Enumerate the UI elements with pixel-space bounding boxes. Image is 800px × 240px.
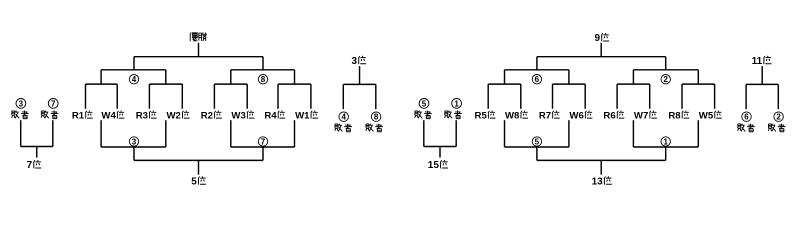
- svg-text:W4: W4: [101, 111, 116, 122]
- label 敗者 (loser of 4): [335, 124, 352, 132]
- wire R match4 stem: [697, 70, 699, 84]
- label 7位: [27, 160, 42, 171]
- node circled 1 loser (P15): [452, 99, 462, 109]
- wire P3 bar: [343, 83, 376, 85]
- svg-text:4: 4: [132, 75, 137, 84]
- node circled 5 loser (P15): [419, 99, 429, 109]
- svg-text:R2: R2: [201, 111, 213, 122]
- label 13位: [592, 176, 612, 187]
- wire R loser4 drop: [697, 120, 699, 147]
- wire L match2 bar: [149, 83, 182, 85]
- svg-text:8: 8: [261, 75, 266, 84]
- svg-text:7: 7: [27, 160, 33, 171]
- wire R match1 stem: [504, 70, 506, 84]
- wire L player4 drop: [181, 84, 183, 109]
- wire R loser2 drop: [568, 120, 570, 147]
- wire L match2 stem: [165, 70, 167, 84]
- label W8位: [505, 111, 528, 122]
- wire P15 bar: [424, 146, 456, 148]
- wire R consA stem: [536, 147, 538, 160]
- wire L player7 drop: [277, 84, 279, 109]
- wire L champion stem: [198, 43, 200, 57]
- svg-text:R6: R6: [603, 111, 615, 122]
- wire L placing stem: [198, 160, 200, 174]
- svg-text:3: 3: [19, 99, 24, 108]
- label 敗者 (loser of 3): [12, 111, 29, 119]
- wire P15 right drop: [455, 120, 457, 146]
- wire R semiB bar: [633, 69, 698, 71]
- wire P3 stem: [359, 66, 361, 84]
- wire L consA stem: [133, 147, 135, 160]
- wire R semiA stem: [536, 57, 538, 70]
- wire P7 stem: [36, 147, 38, 158]
- svg-text:2: 2: [663, 75, 668, 84]
- label 敗者 (loser of 1): [445, 111, 462, 119]
- label R2位: [201, 111, 222, 122]
- node circled 2 loser (P11): [774, 112, 784, 122]
- wire R semiA bar: [505, 69, 569, 71]
- svg-text:5: 5: [422, 99, 427, 108]
- label 5位: [191, 176, 206, 187]
- label W7位: [634, 111, 657, 122]
- node circled 7 loser (P7): [48, 99, 58, 109]
- wire P11 left drop: [745, 84, 747, 109]
- label R8位: [668, 111, 689, 122]
- node circled 6 (R semifinal A): [532, 75, 541, 85]
- node circled 5 (R consolation A): [532, 137, 541, 147]
- wire L player6 drop: [246, 84, 248, 109]
- svg-text:3: 3: [351, 56, 357, 67]
- node circled 2 (R semifinal B): [661, 75, 670, 85]
- wire L consB stem: [262, 147, 264, 160]
- wire R player1 drop: [487, 84, 489, 109]
- svg-text:R5: R5: [475, 111, 488, 122]
- wire L consolationB bar: [231, 146, 295, 148]
- wire L match4 stem: [294, 70, 296, 84]
- wire R consolationB bar: [633, 146, 698, 148]
- svg-text:W5: W5: [699, 111, 714, 122]
- wire L player2 drop: [116, 84, 118, 109]
- wire R consolationA bar: [505, 146, 569, 148]
- wire R final bar: [537, 56, 666, 58]
- label 敗者 (loser of 8): [366, 124, 383, 132]
- svg-text:1: 1: [663, 137, 668, 146]
- wire L match4 bar: [278, 83, 311, 85]
- wire L player1 drop: [85, 84, 87, 109]
- node circled 3 (L consolation A): [129, 137, 138, 147]
- svg-text:8: 8: [374, 113, 379, 122]
- node circled 8 loser (P3): [371, 112, 381, 122]
- label 15位: [428, 160, 448, 171]
- label W2位: [167, 111, 190, 122]
- wire R consB stem: [665, 147, 667, 160]
- wire R player5 drop: [616, 84, 618, 109]
- wire R player4 drop: [584, 84, 586, 109]
- label R3位: [136, 111, 157, 122]
- wire R match2 bar: [553, 83, 586, 85]
- node circled 1 (R consolation B): [661, 137, 670, 147]
- wire L semiB stem: [262, 57, 264, 70]
- label 敗者 (loser of 5): [415, 111, 432, 119]
- wire R match4 bar: [682, 83, 715, 85]
- wire R loser3 drop: [632, 120, 634, 147]
- svg-text:R8: R8: [668, 111, 681, 122]
- svg-text:2: 2: [776, 113, 781, 122]
- wire L loser2 drop: [165, 120, 167, 147]
- svg-text:11: 11: [752, 56, 763, 67]
- svg-text:4: 4: [341, 113, 346, 122]
- wire P11 right drop: [777, 84, 779, 109]
- label 9位: [594, 33, 609, 44]
- label 敗者 (loser of 2): [768, 124, 785, 132]
- node circled 8 (L semifinal B): [258, 75, 267, 85]
- wire P7 bar: [21, 146, 53, 148]
- svg-text:15: 15: [428, 160, 440, 171]
- label R6位: [603, 111, 624, 122]
- svg-text:6: 6: [744, 113, 749, 122]
- wire L final bar: [134, 56, 263, 58]
- svg-text:R3: R3: [136, 111, 148, 122]
- wire P15 left drop: [423, 120, 425, 146]
- wire L match1 stem: [100, 70, 102, 84]
- label R7位: [539, 111, 560, 122]
- node circled 7 (L consolation B): [258, 137, 267, 147]
- wire L semiB bar: [231, 69, 295, 71]
- node circled 3 loser (P7): [16, 99, 26, 109]
- wire R placing bar: [537, 159, 666, 161]
- wire R match1 bar: [488, 83, 521, 85]
- svg-text:W6: W6: [569, 111, 583, 122]
- wire L consolationA bar: [101, 146, 166, 148]
- wire L semiA stem: [133, 57, 135, 70]
- svg-text:3: 3: [132, 137, 137, 146]
- svg-text:W1: W1: [295, 111, 310, 122]
- wire P3 left drop: [342, 84, 344, 109]
- wire R placing stem: [600, 160, 602, 174]
- wire P3 right drop: [375, 84, 377, 109]
- wire L player3 drop: [148, 84, 150, 109]
- wire R match2 stem: [568, 70, 570, 84]
- wire P7 left drop: [20, 120, 22, 146]
- wire P7 right drop: [52, 120, 54, 146]
- label 11位: [752, 56, 772, 67]
- wire L loser3 drop: [230, 120, 232, 147]
- svg-text:W8: W8: [505, 111, 520, 122]
- wire P15 stem: [439, 147, 441, 158]
- svg-text:R1: R1: [72, 111, 85, 122]
- label W5位: [699, 111, 722, 122]
- wire R match3 stem: [632, 70, 634, 84]
- wire R champion stem: [600, 43, 602, 57]
- svg-text:13: 13: [592, 176, 604, 187]
- svg-text:5: 5: [535, 137, 540, 146]
- label W3位: [231, 111, 254, 122]
- wire R match3 bar: [617, 83, 650, 85]
- svg-text:9: 9: [594, 33, 600, 44]
- wire L loser1 drop: [100, 120, 102, 147]
- label W6位: [569, 111, 592, 122]
- label W1位: [295, 111, 318, 122]
- wire P11 bar: [746, 83, 778, 85]
- wire R player2 drop: [520, 84, 522, 109]
- wire R loser1 drop: [504, 120, 506, 147]
- label R4位: [264, 111, 285, 122]
- wire L match3 bar: [214, 83, 247, 85]
- label 3位: [351, 56, 366, 67]
- label 敗者 (loser of 7): [41, 111, 58, 119]
- label R5位: [475, 111, 496, 122]
- svg-text:W2: W2: [167, 111, 181, 122]
- svg-text:W3: W3: [231, 111, 245, 122]
- svg-text:W7: W7: [634, 111, 648, 122]
- wire L player5 drop: [213, 84, 215, 109]
- wire P11 stem: [761, 66, 763, 84]
- svg-text:7: 7: [261, 137, 266, 146]
- label 敗者 (loser of 6): [738, 124, 755, 132]
- svg-text:7: 7: [51, 99, 56, 108]
- wire L player8 drop: [310, 84, 312, 109]
- wire R player3 drop: [552, 84, 554, 109]
- label 優勝: [190, 32, 207, 41]
- wire R semiB stem: [665, 57, 667, 70]
- wire R player8 drop: [714, 84, 716, 109]
- label R1位: [72, 111, 93, 122]
- svg-text:6: 6: [535, 75, 540, 84]
- node circled 6 loser (P11): [742, 112, 752, 122]
- svg-text:R7: R7: [539, 111, 551, 122]
- wire L match1 bar: [86, 83, 118, 85]
- svg-text:R4: R4: [264, 111, 277, 122]
- svg-text:1: 1: [454, 99, 459, 108]
- label W4位: [101, 111, 124, 122]
- wire L semiA bar: [101, 69, 166, 71]
- svg-text:5: 5: [191, 176, 197, 187]
- node circled 4 loser (P3): [339, 112, 349, 122]
- wire R player6 drop: [649, 84, 651, 109]
- wire L loser4 drop: [294, 120, 296, 147]
- wire R player7 drop: [681, 84, 683, 109]
- wire L match3 stem: [230, 70, 232, 84]
- wire L placing bar: [134, 159, 263, 161]
- node circled 4 (L semifinal A): [129, 75, 138, 85]
